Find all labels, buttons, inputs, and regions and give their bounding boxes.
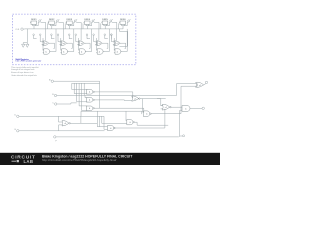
terminal TF	[54, 136, 56, 138]
node flag Q5	[110, 19, 113, 22]
wire column 4	[87, 29, 109, 52]
wire clock bus	[24, 28, 123, 30]
node flag Q4	[92, 19, 95, 22]
xor gate X5	[113, 41, 122, 46]
xor gate X4	[95, 41, 104, 46]
wire clk drop 6	[122, 26, 124, 29]
pin flag 6	[111, 34, 113, 39]
svg-text:=1: =1	[99, 43, 101, 45]
wire TA	[54, 80, 100, 82]
wire X7 out	[204, 83, 206, 85]
nor gate G9	[162, 104, 171, 110]
wire Q3 route	[76, 22, 83, 29]
wire TD	[19, 115, 104, 117]
nand gate G1	[86, 90, 94, 95]
and gate G5	[143, 111, 151, 117]
xor gate X3	[77, 41, 86, 46]
wire mesh	[72, 81, 100, 110]
wire TB	[57, 95, 177, 97]
terminal OUT1	[205, 81, 207, 83]
and gate A5	[114, 49, 122, 54]
wire clk drop 5	[104, 26, 106, 29]
wire G7 out	[59, 116, 98, 131]
wire clk drop 1	[33, 26, 35, 29]
svg-text:=1: =1	[45, 43, 47, 45]
wire TF	[56, 136, 179, 138]
node flag Q6	[128, 19, 131, 22]
wire Q4 route	[94, 22, 101, 29]
and gate A3	[78, 49, 86, 54]
selection box	[13, 14, 136, 64]
terminal CLK	[21, 28, 25, 30]
pin flags 4	[86, 34, 94, 42]
node flag Q1	[39, 19, 42, 22]
nand gate G3	[86, 106, 94, 111]
wire feedback loop	[119, 29, 127, 46]
pin flags 1	[33, 34, 41, 42]
terminal TB	[54, 94, 56, 96]
wire G2 out	[94, 99, 132, 102]
and gate G10	[182, 106, 190, 112]
nor gate G7	[62, 121, 70, 126]
flip-flop DFF6	[119, 21, 126, 26]
wire Q2 route	[58, 22, 65, 29]
xor gate X1	[42, 41, 51, 46]
svg-text:=1: =1	[81, 43, 83, 45]
flip-flop DFF1	[30, 21, 37, 26]
nand gate G6	[127, 120, 135, 125]
wire column 5	[105, 29, 127, 52]
wire G9-G10	[161, 106, 182, 111]
flip-flop DFF3	[66, 21, 73, 26]
nor gate G4	[132, 96, 140, 101]
terminal OUT2	[202, 107, 204, 109]
ground 1	[22, 43, 25, 48]
nand gate G8	[108, 125, 116, 130]
wire G8 out	[116, 109, 165, 128]
terminal TC	[55, 103, 57, 105]
svg-text:=1: =1	[199, 85, 201, 87]
terminal TD	[17, 115, 19, 117]
wire TF riser	[180, 110, 183, 137]
wire Q1 loop	[33, 22, 40, 26]
xor gate X2	[60, 41, 69, 46]
wire G1 out	[94, 92, 132, 98]
flip-flop DFF2	[48, 21, 55, 26]
and gate A4	[96, 49, 104, 54]
wire clk drop 4	[86, 26, 88, 29]
wire Q1 route	[41, 22, 48, 29]
wire Q5 loop	[104, 22, 111, 26]
wire Q4 loop	[86, 22, 93, 26]
wire clk drop 2	[51, 26, 53, 29]
wire TE	[19, 130, 105, 132]
svg-text:=1: =1	[63, 43, 65, 45]
svg-text:=1: =1	[134, 99, 136, 101]
svg-text:=1: =1	[165, 107, 167, 109]
svg-text:6 bit LFSR random generator: 6 bit LFSR random generator	[15, 60, 41, 63]
and gate A2	[61, 49, 69, 54]
wire comb	[81, 111, 142, 129]
svg-text:=1: =1	[64, 123, 66, 125]
wire Q3 loop	[68, 22, 75, 26]
svg-text:CLK: CLK	[15, 29, 20, 31]
node flag Q3	[74, 19, 77, 22]
wire column 2	[51, 29, 73, 52]
svg-text:=1: =1	[116, 43, 118, 45]
terminal TA	[51, 80, 53, 82]
junction TF	[183, 135, 185, 137]
svg-text:through all six stages here: through all six stages here	[11, 68, 35, 71]
svg-text:A sum of taps drives it on: A sum of taps drives it on	[11, 71, 33, 74]
CircuitLab logo	[11, 155, 36, 165]
svg-text:LAB: LAB	[24, 159, 34, 164]
svg-text:Gates decode the output bits: Gates decode the output bits	[11, 74, 37, 77]
wire G3 out	[94, 108, 143, 112]
wire G5 out	[152, 86, 197, 114]
wire ground stub	[23, 29, 27, 43]
wire G10 out	[190, 107, 202, 109]
wire G6 out	[135, 122, 168, 125]
flip-flop DFF5	[101, 21, 108, 26]
nand gate G2	[86, 98, 94, 103]
pin flags 2	[51, 34, 59, 42]
xor gate X7	[196, 82, 204, 87]
wire Q5 route	[112, 22, 119, 29]
wire Q2 loop	[50, 22, 57, 26]
terminal TE	[17, 130, 19, 132]
wire TC	[57, 103, 77, 104]
svg-text:http://circuitlab.com/c/e75bdr: http://circuitlab.com/c/e75bdr56/asg2222…	[42, 158, 117, 162]
flip-flop DFF4	[83, 21, 90, 26]
node flag Q2	[56, 19, 59, 22]
pin flags 3	[68, 34, 76, 42]
pin flags 5	[104, 34, 112, 42]
wire column 3	[69, 29, 91, 52]
and gate A1	[43, 49, 51, 54]
wire X7 in	[177, 84, 196, 96]
wire G4 out	[140, 99, 166, 112]
ground 2	[26, 43, 29, 48]
wire Q6 loop	[122, 22, 129, 26]
footer bar	[0, 153, 220, 165]
wire column 1	[34, 29, 56, 52]
wire clk drop 3	[69, 26, 71, 29]
